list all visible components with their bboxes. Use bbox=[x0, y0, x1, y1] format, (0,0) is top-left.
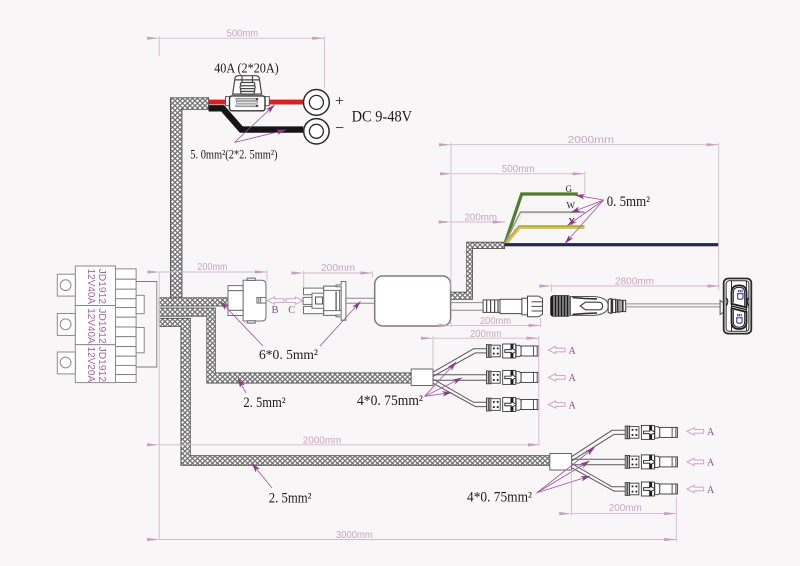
wire C to box bbox=[346, 297, 375, 299]
wire to switch bbox=[626, 303, 721, 305]
ribs bbox=[608, 299, 626, 314]
relay pin ladder bbox=[114, 269, 136, 383]
dim 200mm splitter2 bbox=[571, 470, 676, 542]
arrow A splitter2 mid bbox=[687, 458, 704, 465]
wire 5.0mm2 main trunk (L from fuse area down to relay junction) bbox=[170, 98, 208, 298]
wire G green bbox=[505, 194, 578, 244]
dim 2000mm top bbox=[451, 143, 719, 291]
fuse holder 40A cap bbox=[233, 76, 262, 94]
svg-text:200mm: 200mm bbox=[480, 315, 511, 327]
svg-text:A: A bbox=[569, 346, 577, 357]
svg-text:40A (2*20A): 40A (2*20A) bbox=[214, 61, 279, 76]
icon low beam bbox=[737, 314, 742, 323]
svg-text:−: − bbox=[335, 120, 344, 137]
svg-text:B: B bbox=[272, 305, 279, 316]
arrow A splitter1 mid bbox=[548, 374, 565, 381]
connector B housing bbox=[228, 278, 266, 323]
svg-text:6*0. 5mm²: 6*0. 5mm² bbox=[259, 348, 318, 363]
rocker divider diagonal bbox=[732, 306, 747, 310]
relay comb tab 2 bbox=[136, 328, 144, 353]
handlebar switch bbox=[720, 279, 751, 334]
svg-text:4*0. 75mm²: 4*0. 75mm² bbox=[467, 490, 533, 506]
dim 500mm top bbox=[159, 36, 324, 89]
splitter1 connector top bbox=[487, 344, 539, 358]
svg-text:JD191212V40A: JD191212V40A bbox=[85, 308, 107, 344]
svg-text:500mm: 500mm bbox=[227, 28, 259, 40]
svg-text:200mm: 200mm bbox=[609, 502, 642, 514]
wire box to lead connector bbox=[451, 302, 484, 304]
svg-text:4*0. 75mm²: 4*0. 75mm² bbox=[357, 393, 424, 409]
wire Y yellow bbox=[505, 227, 585, 245]
svg-text:200mm: 200mm bbox=[197, 261, 227, 273]
svg-text:2800mm: 2800mm bbox=[615, 276, 654, 288]
ring terminal positive bbox=[304, 90, 330, 116]
splitter2 connector bottom bbox=[625, 482, 677, 496]
wire black negative lead bbox=[209, 108, 304, 129]
svg-text:2. 5mm²: 2. 5mm² bbox=[269, 491, 312, 507]
dim 200mm (connector C to box) bbox=[304, 271, 373, 288]
splitter2 connector top bbox=[625, 425, 677, 439]
dim 200mm (box lead) bbox=[451, 318, 541, 327]
dim 200mm (connector B) bbox=[160, 270, 268, 281]
relay comb tab 1 bbox=[136, 295, 144, 313]
splitter2 connector mid bbox=[625, 455, 677, 469]
splitter2 branch wires bbox=[572, 430, 626, 491]
wire branch band3 (2.5mm2 lower run to second splitter) bbox=[159, 318, 550, 465]
control box bbox=[375, 276, 451, 326]
dim 200mm splitter1 bbox=[433, 336, 539, 445]
icon high beam bbox=[738, 290, 743, 299]
arrow B (hollow) bbox=[267, 297, 284, 304]
relay bracket wires to junction bbox=[136, 282, 157, 368]
svg-text:JD191212V20A: JD191212V20A bbox=[85, 347, 107, 383]
svg-text:200mm: 200mm bbox=[465, 212, 498, 224]
arrow A splitter2 top bbox=[687, 428, 704, 435]
grip body bbox=[570, 297, 608, 316]
relay JD1912 12V40A (2) bbox=[57, 306, 115, 345]
callout 2.5mm2 upper bbox=[238, 379, 246, 394]
fuse holder body bbox=[226, 97, 230, 106]
svg-text:A: A bbox=[569, 400, 577, 411]
splitter1 ferrule bbox=[411, 369, 433, 386]
svg-text:200mm: 200mm bbox=[321, 262, 355, 274]
svg-text:W: W bbox=[567, 201, 576, 211]
relay JD1912 12V40A (1) bbox=[57, 266, 115, 306]
svg-text:+: + bbox=[335, 93, 344, 110]
splitter2 ferrule bbox=[550, 454, 572, 471]
callout 5.0mm2 bbox=[234, 105, 286, 143]
wire branch band1 to connector B bbox=[159, 298, 229, 306]
dim 500mm (green wire) bbox=[452, 172, 585, 195]
relay JD1912 12V20A (3) bbox=[57, 345, 115, 383]
wire red positive lead bbox=[209, 100, 304, 105]
arrow C (hollow) bbox=[286, 297, 303, 304]
wire branch band2 (2.5mm2 upper run to first splitter) bbox=[159, 308, 411, 383]
dim 2800mm bbox=[552, 284, 720, 292]
wire navy bbox=[505, 243, 719, 246]
svg-text:500mm: 500mm bbox=[502, 163, 535, 175]
svg-text:2. 5mm²: 2. 5mm² bbox=[243, 395, 286, 411]
svg-text:JD191212V40A: JD191212V40A bbox=[85, 269, 107, 305]
svg-text:5. 0mm²(2*2. 5mm²): 5. 0mm²(2*2. 5mm²) bbox=[190, 148, 277, 162]
connector threaded male 2800 lead bbox=[551, 296, 721, 316]
svg-text:A: A bbox=[707, 485, 715, 496]
callout 2.5mm2 lower bbox=[252, 464, 272, 489]
splitter1 connector bottom bbox=[487, 398, 539, 412]
splitter1 connector mid bbox=[487, 370, 539, 384]
svg-text:G: G bbox=[566, 184, 573, 194]
svg-text:A: A bbox=[569, 373, 577, 384]
lead connector ribbed male bbox=[483, 299, 522, 313]
svg-text:2000mm: 2000mm bbox=[303, 434, 342, 446]
dim 3000mm bbox=[159, 539, 676, 541]
svg-text:200mm: 200mm bbox=[470, 328, 502, 340]
lower rocker bbox=[732, 308, 747, 329]
svg-text:2000mm: 2000mm bbox=[568, 134, 615, 146]
callout 0.5mm2 (four arrows) bbox=[565, 195, 604, 243]
wire W white bbox=[506, 213, 585, 244]
svg-text:DC 9-48V: DC 9-48V bbox=[352, 108, 413, 125]
svg-text:A: A bbox=[707, 458, 715, 469]
dim 200mm (0.5 branch) bbox=[451, 221, 505, 223]
callout 4*0.75mm2 upper bbox=[425, 362, 462, 396]
upper rocker bbox=[732, 285, 747, 307]
svg-text:0. 5mm²: 0. 5mm² bbox=[607, 194, 651, 210]
dim 2000mm lower bbox=[159, 444, 540, 446]
arrow A splitter1 bottom bbox=[548, 401, 565, 408]
arrow A splitter2 bottom bbox=[687, 485, 704, 492]
callout 4*0.75mm2 lower bbox=[537, 448, 595, 493]
svg-text:C: C bbox=[288, 305, 295, 316]
splitter1 branch wires bbox=[433, 349, 487, 407]
ring terminal negative bbox=[304, 119, 329, 144]
wire 0.5mm2 branch from control box up to G/W/Y fan-out bbox=[448, 242, 505, 299]
lead connector threaded cap bbox=[522, 296, 543, 317]
svg-text:Y: Y bbox=[569, 217, 576, 227]
arrow A splitter1 top bbox=[548, 346, 565, 353]
svg-text:A: A bbox=[707, 427, 715, 438]
vertical datum line left bbox=[158, 272, 160, 540]
svg-text:3000mm: 3000mm bbox=[336, 529, 373, 541]
connector C housing bbox=[303, 282, 346, 321]
callout 6*0.5mm2 bbox=[221, 302, 361, 347]
